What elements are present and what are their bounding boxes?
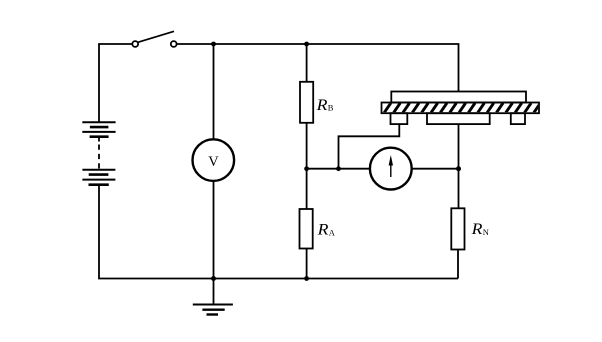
svg-text:R: R xyxy=(470,221,483,238)
svg-text:V: V xyxy=(208,154,219,170)
svg-text:R: R xyxy=(316,222,329,239)
svg-text:A: A xyxy=(329,228,336,238)
svg-text:B: B xyxy=(328,103,334,113)
svg-text:R: R xyxy=(315,97,328,114)
svg-text:N: N xyxy=(483,227,489,237)
